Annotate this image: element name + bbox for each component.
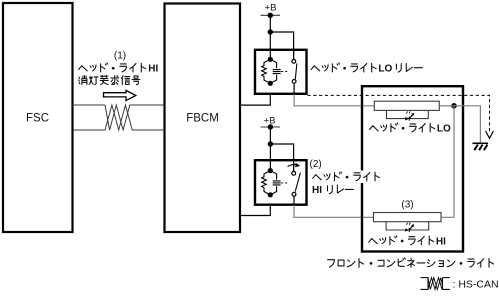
svg-text:(3): (3) (401, 200, 413, 211)
FBCM box (165, 4, 241, 233)
wire: junction to LO relay contact (270, 32, 293, 59)
wire: LO lamp to junction (439, 105, 454, 107)
LO relay contact (292, 50, 297, 94)
HI relay opening arrow (288, 163, 301, 167)
ground symbol (473, 143, 489, 150)
label: headlight LO (370, 123, 451, 135)
legend: twisted-pair symbol (421, 278, 451, 290)
wire: HI lamp up to junction (441, 106, 454, 218)
svg-text:+B: +B (265, 3, 277, 14)
wire: +B to LO relay coil (269, 15, 271, 59)
LO relay coil node bottom (268, 81, 273, 86)
front combination light box (362, 86, 463, 251)
HI relay coil node bottom (268, 192, 273, 197)
wire: HI relay contact to HI lamp (294, 205, 374, 217)
svg-text:(1): (1) (114, 51, 126, 62)
relay box: headlight HI relay (255, 160, 307, 205)
wire: LO relay contact to LO lamp (294, 94, 374, 106)
svg-text:FBCM: FBCM (186, 113, 219, 125)
svg-text:LO: LO (437, 124, 451, 135)
HI relay contact (292, 160, 301, 204)
LO bulb filament symbol (405, 111, 414, 120)
svg-text:HI: HI (148, 64, 158, 75)
svg-text:HI: HI (436, 236, 446, 247)
LO relay linkage (dashed) (281, 71, 289, 73)
label: headlight HI (annotation line 1) (79, 63, 159, 75)
HI relay coil (270, 171, 280, 195)
dashed flow arrowhead (486, 131, 494, 138)
wire: CAN bus bottom (FSC to FBCM) (73, 129, 164, 131)
label: headlight HI (369, 236, 446, 248)
svg-text:LO: LO (378, 64, 392, 75)
HI relay coil node top (268, 168, 273, 173)
wire: +B to HI relay coil (269, 127, 271, 170)
HI relay linkage (dashed) (281, 182, 289, 184)
label: headlight (HI relay line 1) (351, 171, 386, 184)
wire: LO relay coil to FBCM (241, 94, 270, 105)
junction node (lamp ground join) (451, 103, 457, 109)
wire: junction to HI relay contact (270, 144, 293, 170)
junction node (HI +B split) (268, 141, 273, 146)
label: headlight LO relay (311, 63, 422, 75)
label: HI relay (line 2) (312, 185, 353, 196)
+B terminal (LO relay) (261, 13, 281, 18)
LO relay coil node top (268, 57, 273, 62)
wire: HI relay coil to FBCM (241, 205, 270, 216)
dashed flow line (LO circuit) (308, 95, 490, 131)
relay box: headlight LO relay (255, 50, 307, 94)
LO relay coil (270, 59, 280, 83)
signal direction arrow (104, 90, 136, 100)
wire: CAN bus top (FSC to FBCM) (73, 104, 164, 106)
HI bulb filament symbol (405, 223, 414, 232)
+B terminal (HI relay) (261, 124, 281, 129)
svg-text:(2): (2) (310, 159, 322, 170)
LO relay resistor (262, 59, 271, 83)
wire: junction to ground (454, 106, 480, 143)
svg-text:FSC: FSC (26, 113, 49, 125)
headlight HI bulb (374, 213, 442, 231)
svg-text:: HS-CAN: : HS-CAN (453, 279, 499, 291)
junction node (LO +B split) (268, 29, 273, 34)
FSC box (3, 3, 73, 232)
HI relay resistor (262, 171, 271, 195)
label: front combination light (328, 258, 494, 267)
label: turn-off request signal (annotation line 2) (79, 75, 140, 84)
twisted-pair symbol (105, 105, 132, 130)
headlight LO bulb (374, 101, 439, 118)
svg-text:HI: HI (312, 185, 322, 196)
